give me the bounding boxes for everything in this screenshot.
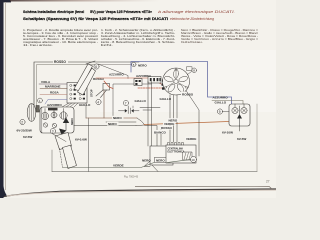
svg-text:NERO: NERO [138,64,147,68]
wire ROSSO top harness [34,62,139,107]
label AZZURRO (left) [47,103,62,107]
junction connector box [134,79,142,86]
svg-text:2: 2 [21,120,23,124]
svg-text:ROSSO: ROSSO [93,77,105,81]
label AZZURRO (junction 2) [136,74,151,78]
label ROSSO (left of junction) [93,77,105,81]
wire VIOLA [39,83,67,85]
wire MARRONE [40,88,67,90]
svg-text:Schaltplan (Spannung 6V) für V: Schaltplan (Spannung 6V) für Vespa 125 P… [23,16,168,21]
horn contacts [119,106,140,114]
label GIALLO (mid wire) [134,98,147,103]
svg-text:licht.: licht. [101,43,114,47]
svg-text:AZZURRO: AZZURRO [213,96,229,100]
callout 9 [217,109,229,114]
svg-text:BIANCO: BIANCO [154,130,166,134]
callout 8 [187,67,193,71]
label NERO vertical (headlamp) [71,118,74,125]
svg-text:GIALLO: GIALLO [215,100,227,104]
ground arrow headlamp [63,118,69,131]
svg-text:ROSA: ROSA [50,91,60,95]
label VERDE (above CDI) [163,122,176,126]
svg-text:AZZURRO: AZZURRO [109,73,124,77]
terminal squares on flywheel rim [162,80,165,90]
svg-text:STOP: STOP [90,89,94,97]
label ROSA [50,91,60,95]
label NERO (above CDI) [168,118,180,122]
stop switch (interruttore stop) [96,84,110,119]
label ROSSO (top) [53,59,68,64]
callout 1 [38,98,43,103]
headlamp housing [40,107,74,133]
ground arrow tail lamp [237,106,242,131]
label NERO (bundle 1) [112,116,124,120]
label MARRONE [45,85,61,89]
wire AZZURRO from switch down-left [45,100,67,105]
svg-text:Schéma installation électrique: Schéma installation électrique (tensi 5V… [23,9,153,14]
svg-text:NERO: NERO [113,116,122,120]
svg-text:elektronische Zündeinrichtung: elektronische Zündeinrichtung [170,17,215,21]
svg-text:6V-10W: 6V-10W [222,131,233,135]
wires from switch body down to headlamp [62,103,89,172]
page base [0,0,276,198]
wire frame around horn area [113,84,152,118]
label VERDE (bottom) [112,163,126,168]
label VERDE (right of CDI wires) [185,137,198,141]
svg-text:Fig. 7000-43: Fig. 7000-43 [124,176,139,179]
junction terminal block upper [148,77,161,84]
svg-text:4: 4 [97,100,99,104]
wire ROSSO to flywheel rim [96,78,162,88]
label GIALLO (under flywheel) [159,96,173,101]
svg-text:NERO: NERO [156,159,165,163]
label ROSSO (above CDI) [160,126,173,130]
svg-text:27: 27 [266,180,270,184]
spark plug callout 10 [191,157,197,163]
wire from lever to junction box [98,64,128,79]
svg-text:AZZURRO: AZZURRO [47,103,62,107]
bulb high/low beam [41,109,48,120]
wire ROSA [40,94,67,96]
label 6V-5W (tail) [237,137,246,141]
title French line [23,9,235,21]
label 6V-25/25W [17,129,32,133]
callout 7 [123,100,128,105]
svg-text:9: 9 [219,110,221,114]
label GIALLO (below switch) [79,103,91,107]
svg-text:AZZURRO: AZZURRO [136,74,151,78]
label 6V-5W [23,135,32,139]
wire GIALLO to tail lamp [212,101,243,105]
label GIALLO (right) [215,100,227,104]
svg-text:6: 6 [95,65,97,69]
headlight bulb pictorial [27,104,39,122]
wires down from flywheel to CDI [140,82,199,157]
svg-text:NERO: NERO [142,159,151,163]
tail bulb right [241,104,247,114]
wire VERDE long bottom [63,160,191,168]
label BIANCO (above CDI) [153,130,167,134]
label 6V-0.6W [75,138,87,142]
label STOP vertical [90,89,94,97]
svg-text:7: 7 [125,101,127,105]
callout 4 [96,99,101,104]
callout 6 [94,64,99,69]
svg-text:NERO: NERO [108,122,117,126]
svg-text:11. Feu arriere.: 11. Feu arriere. [23,43,53,47]
wire from coil bottom [144,161,158,172]
bulb right [60,109,67,120]
label ROSSO (under flywheel right) [181,92,195,97]
tail lamp unit [229,104,250,126]
svg-text:VERDE: VERDE [113,163,124,167]
legend column 1 [23,28,98,47]
bulb double filament [51,109,57,119]
light switch lever (devioluci pictorial) [74,61,96,95]
label NERO (junction) [138,64,147,68]
svg-text:ROSSO: ROSSO [54,60,66,64]
svg-text:VERDE: VERDE [186,137,196,141]
speedometer lamp pictorial [52,129,77,169]
svg-text:VIOLA: VIOLA [41,80,51,84]
svg-text:6V-25/25W: 6V-25/25W [17,129,32,133]
label VIOLA [41,80,51,84]
callout 2 [20,119,25,124]
legend column 3 wire colour key [181,28,259,44]
svg-text:3: 3 [52,129,54,133]
wire ROSSO from stop switch [104,81,113,89]
label AZZURRO (junction 1) [109,73,124,77]
svg-text:Gris/Grau.: Gris/Grau. [181,40,204,44]
label CENTRALINA ELETTRONICA [168,148,185,154]
label NERO (bundle 2) [107,122,119,126]
svg-text:GIALLO: GIALLO [79,103,91,107]
svg-text:10: 10 [191,158,195,162]
svg-text:6V-0.6W: 6V-0.6W [75,138,87,142]
pilot bulb small [43,123,47,127]
frame bottom wire [52,104,257,172]
tail bulb left [232,104,238,114]
label NERO boxed [155,157,168,162]
wire AZZURRO long blue run to tail lamp [131,62,232,105]
light switch body with terminals [67,83,87,104]
label AZZURRO (right) [213,96,229,100]
svg-text:à allumage électronique DUCATI: à allumage électronique DUCATI. [158,10,235,14]
callout 5 [132,62,136,67]
svg-text:ELETTRONICA: ELETTRONICA [168,151,185,154]
svg-text:MARRONE: MARRONE [45,85,61,89]
svg-text:NERO: NERO [71,118,74,125]
svg-text:GIALLO: GIALLO [135,99,147,103]
legend column 2 [101,28,175,47]
harness wires to rear: bundle [74,118,229,146]
HT coil box [150,146,173,165]
speedo socket small [52,123,56,127]
callout 3 [50,128,55,133]
svg-text:6V-5W: 6V-5W [23,135,32,139]
label NERO (bottom) [142,159,151,163]
svg-text:6V-5W: 6V-5W [237,137,246,141]
CDI unit centralina elettronica [166,143,196,164]
label 6V-10W [222,131,233,135]
flywheel magneto [163,68,192,95]
